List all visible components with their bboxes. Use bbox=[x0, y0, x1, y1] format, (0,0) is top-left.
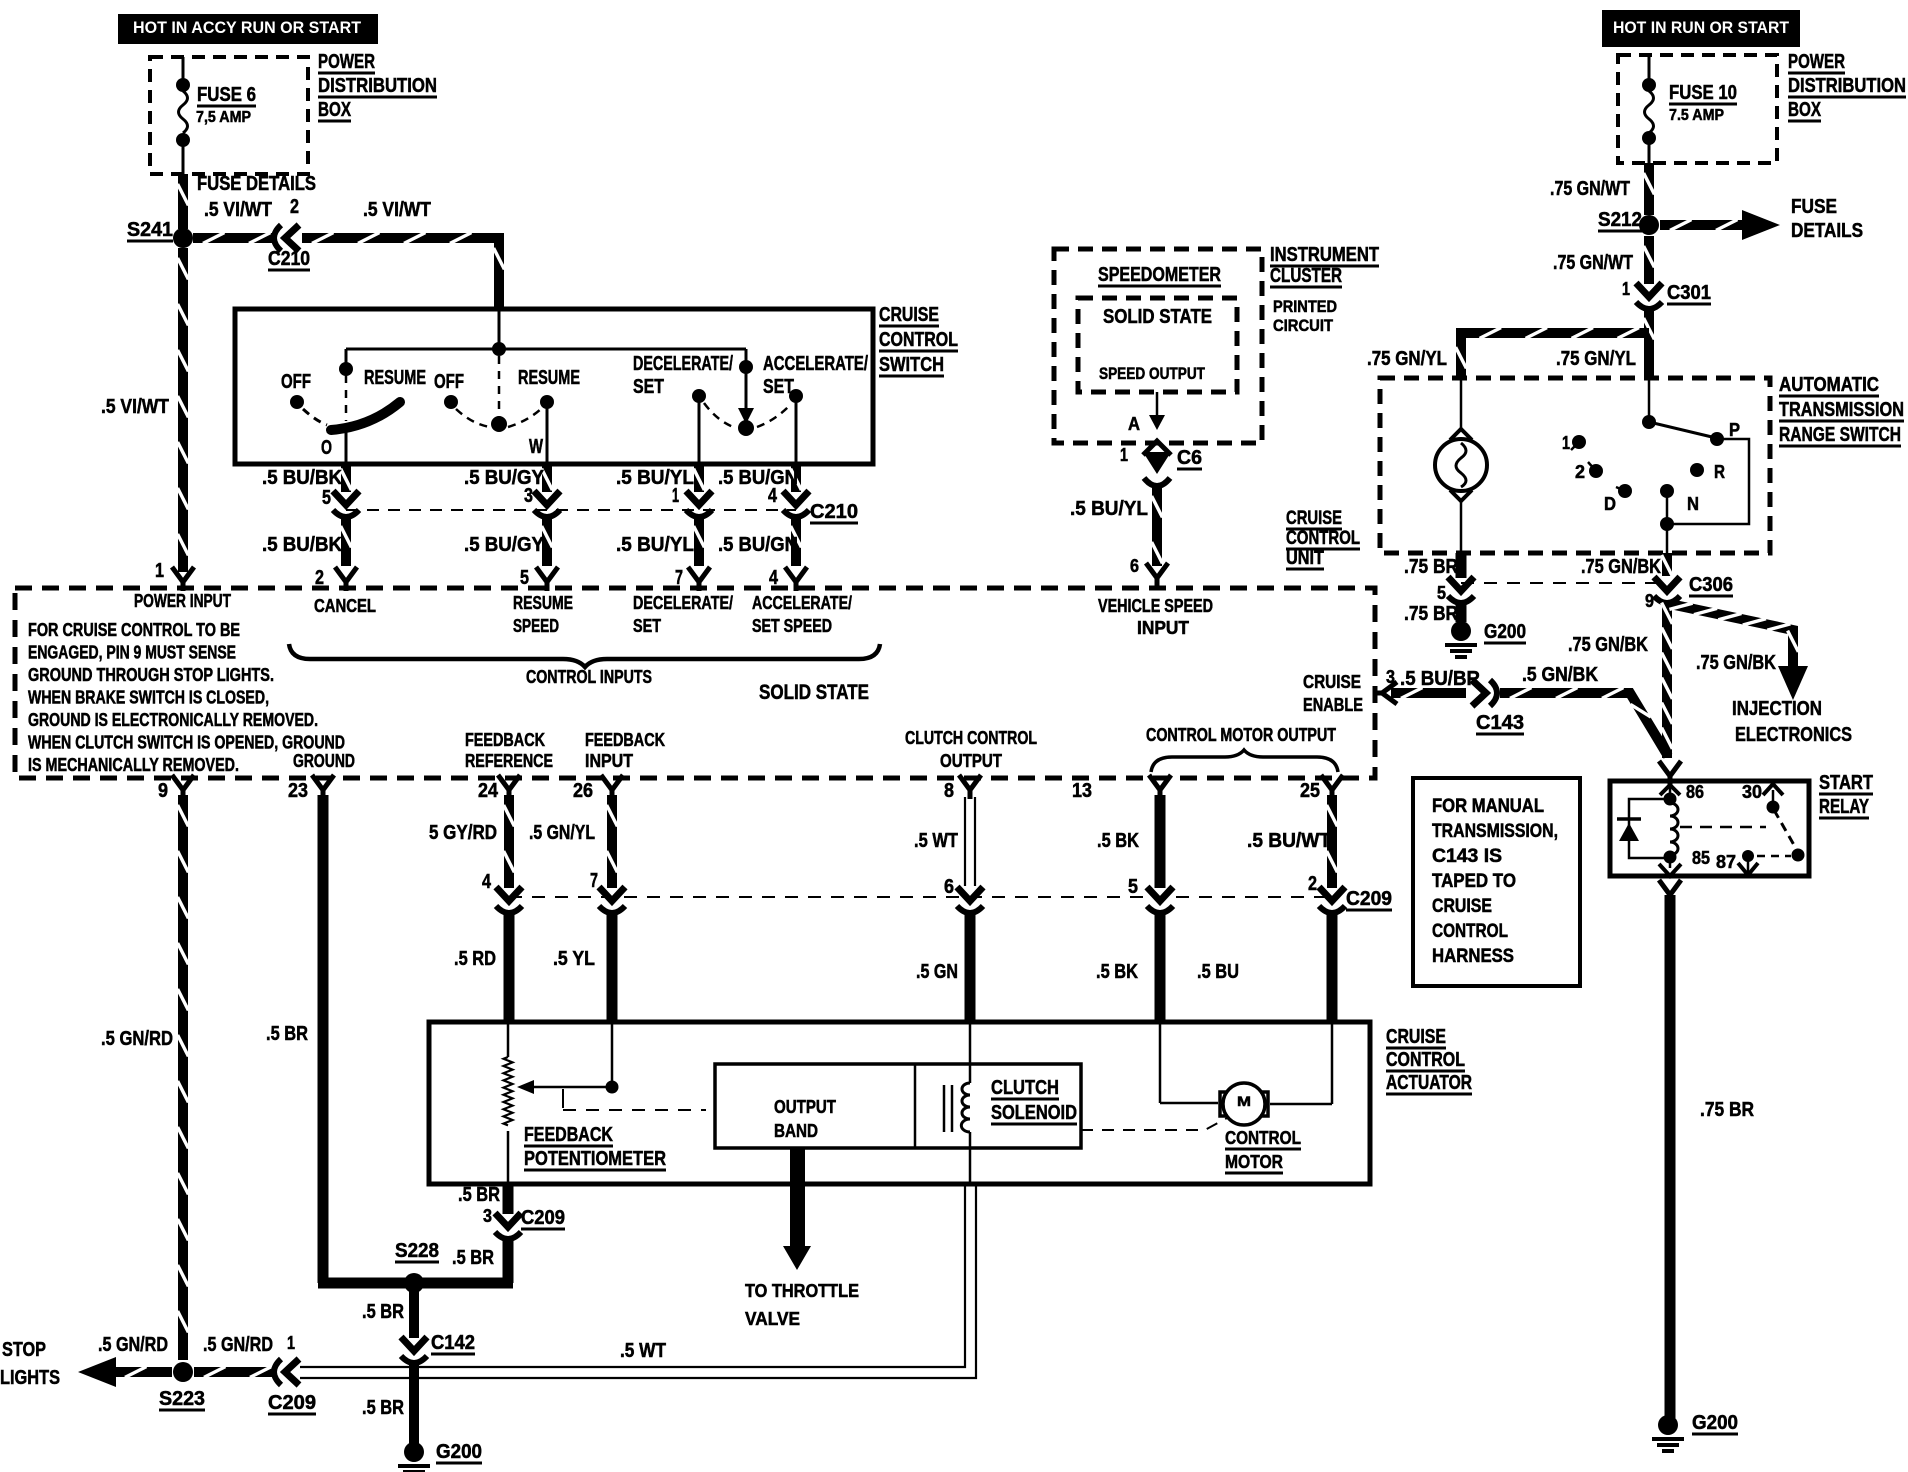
svg-text:.5 BU/GY: .5 BU/GY bbox=[464, 534, 545, 556]
svg-text:.5 GN/RD: .5 GN/RD bbox=[203, 1334, 273, 1356]
svg-text:.5 BU/BR: .5 BU/BR bbox=[1400, 668, 1481, 690]
svg-text:RANGE SWITCH: RANGE SWITCH bbox=[1779, 424, 1901, 446]
svg-text:S228: S228 bbox=[395, 1240, 439, 1262]
svg-text:DECELERATE/: DECELERATE/ bbox=[633, 353, 733, 375]
svg-text:4: 4 bbox=[768, 485, 778, 507]
svg-text:OFF: OFF bbox=[281, 371, 311, 393]
svg-text:2: 2 bbox=[1308, 873, 1317, 895]
svg-text:S241: S241 bbox=[127, 219, 173, 241]
svg-text:SOLID STATE: SOLID STATE bbox=[1103, 306, 1212, 328]
svg-text:WHEN CLUTCH SWITCH IS OPENED,: WHEN CLUTCH SWITCH IS OPENED, GROUND bbox=[28, 733, 345, 753]
svg-text:CONTROL: CONTROL bbox=[1286, 528, 1360, 549]
svg-text:.5 BR: .5 BR bbox=[452, 1247, 494, 1269]
svg-text:BAND: BAND bbox=[774, 1121, 818, 1141]
svg-text:C209: C209 bbox=[521, 1207, 565, 1229]
svg-text:G200: G200 bbox=[1692, 1412, 1738, 1434]
svg-text:.75 BR: .75 BR bbox=[1700, 1099, 1754, 1121]
svg-text:CONTROL: CONTROL bbox=[1225, 1128, 1301, 1148]
svg-text:POWER: POWER bbox=[318, 51, 375, 73]
svg-text:AUTOMATIC: AUTOMATIC bbox=[1779, 374, 1879, 396]
svg-text:REFERENCE: REFERENCE bbox=[465, 751, 553, 771]
svg-text:FOR CRUISE CONTROL TO BE: FOR CRUISE CONTROL TO BE bbox=[28, 620, 240, 640]
svg-text:.5 VI/WT: .5 VI/WT bbox=[363, 199, 431, 221]
svg-text:.75 GN/BK: .75 GN/BK bbox=[1568, 634, 1648, 656]
svg-text:SOLENOID: SOLENOID bbox=[991, 1102, 1077, 1124]
svg-text:.5 BU/GN: .5 BU/GN bbox=[718, 534, 798, 556]
svg-text:C6: C6 bbox=[1177, 447, 1202, 469]
svg-text:D: D bbox=[1604, 494, 1616, 514]
svg-text:SET: SET bbox=[633, 616, 661, 636]
svg-text:1: 1 bbox=[1562, 433, 1570, 453]
svg-text:5: 5 bbox=[1128, 876, 1138, 898]
svg-text:1: 1 bbox=[155, 560, 164, 582]
svg-text:SET: SET bbox=[633, 376, 664, 398]
svg-text:R: R bbox=[1714, 462, 1725, 482]
svg-text:CLUTCH CONTROL: CLUTCH CONTROL bbox=[905, 728, 1037, 748]
svg-text:SPEED OUTPUT: SPEED OUTPUT bbox=[1099, 364, 1205, 383]
svg-text:GROUND: GROUND bbox=[293, 751, 355, 771]
svg-text:FUSE: FUSE bbox=[1791, 196, 1837, 218]
svg-text:STOP: STOP bbox=[2, 1339, 46, 1361]
svg-text:SPEEDOMETER: SPEEDOMETER bbox=[1098, 264, 1221, 286]
svg-text:CONTROL: CONTROL bbox=[1432, 921, 1508, 942]
svg-text:1: 1 bbox=[672, 485, 679, 507]
svg-text:13: 13 bbox=[1072, 780, 1092, 802]
svg-text:C142: C142 bbox=[431, 1332, 475, 1354]
svg-text:CRUISE: CRUISE bbox=[1286, 508, 1342, 529]
svg-text:.5 VI/WT: .5 VI/WT bbox=[204, 199, 272, 221]
svg-text:VEHICLE SPEED: VEHICLE SPEED bbox=[1098, 596, 1213, 616]
svg-text:.5 GN/RD: .5 GN/RD bbox=[98, 1334, 168, 1356]
svg-text:5: 5 bbox=[520, 567, 529, 589]
svg-text:PRINTED: PRINTED bbox=[1273, 297, 1337, 316]
svg-text:VALVE: VALVE bbox=[745, 1309, 800, 1329]
svg-text:.5 WT: .5 WT bbox=[914, 830, 958, 852]
svg-text:.5 BU/YL: .5 BU/YL bbox=[616, 467, 694, 489]
svg-text:POTENTIOMETER: POTENTIOMETER bbox=[524, 1148, 666, 1170]
svg-text:FEEDBACK: FEEDBACK bbox=[465, 730, 545, 750]
svg-text:INSTRUMENT: INSTRUMENT bbox=[1270, 244, 1379, 266]
svg-text:SWITCH: SWITCH bbox=[879, 354, 944, 376]
svg-text:.75 GN/WT: .75 GN/WT bbox=[1550, 178, 1630, 200]
svg-text:.5 BU/GN: .5 BU/GN bbox=[718, 467, 798, 489]
svg-text:P: P bbox=[1729, 420, 1740, 440]
svg-text:GROUND IS ELECTRONICALLY REMOV: GROUND IS ELECTRONICALLY REMOVED. bbox=[28, 710, 318, 730]
svg-text:5: 5 bbox=[322, 487, 331, 509]
svg-text:5: 5 bbox=[1437, 583, 1446, 603]
svg-text:CONTROL INPUTS: CONTROL INPUTS bbox=[526, 667, 652, 687]
svg-text:.5 BU/BK: .5 BU/BK bbox=[262, 467, 343, 489]
svg-text:FUSE 10: FUSE 10 bbox=[1669, 82, 1737, 104]
svg-text:SET SPEED: SET SPEED bbox=[752, 616, 832, 636]
svg-text:OUTPUT: OUTPUT bbox=[774, 1097, 836, 1117]
svg-text:1: 1 bbox=[1622, 279, 1630, 299]
svg-text:4: 4 bbox=[482, 871, 492, 893]
svg-text:A: A bbox=[1128, 414, 1140, 434]
svg-text:MOTOR: MOTOR bbox=[1225, 1152, 1283, 1172]
svg-text:.5 GN/BK: .5 GN/BK bbox=[1522, 664, 1598, 686]
svg-text:BOX: BOX bbox=[1788, 99, 1821, 121]
svg-text:24: 24 bbox=[478, 780, 499, 802]
svg-text:SPEED: SPEED bbox=[513, 616, 559, 636]
svg-text:TO THROTTLE: TO THROTTLE bbox=[745, 1281, 859, 1301]
svg-text:.75 GN/YL: .75 GN/YL bbox=[1556, 348, 1636, 370]
svg-text:DISTRIBUTION: DISTRIBUTION bbox=[1788, 75, 1906, 97]
svg-text:CRUISE: CRUISE bbox=[1432, 896, 1492, 917]
svg-text:6: 6 bbox=[1130, 556, 1139, 576]
svg-text:C210: C210 bbox=[810, 501, 858, 523]
svg-text:C209: C209 bbox=[268, 1392, 316, 1414]
svg-text:CONTROL: CONTROL bbox=[1386, 1049, 1465, 1071]
svg-text:UNIT: UNIT bbox=[1286, 548, 1324, 569]
svg-text:CANCEL: CANCEL bbox=[314, 596, 376, 616]
svg-text:4: 4 bbox=[769, 567, 779, 589]
svg-text:SET: SET bbox=[763, 376, 794, 398]
svg-text:7: 7 bbox=[590, 870, 598, 892]
svg-text:G200: G200 bbox=[1484, 621, 1526, 643]
svg-text:OUTPUT: OUTPUT bbox=[940, 751, 1002, 771]
svg-text:FOR MANUAL: FOR MANUAL bbox=[1432, 796, 1544, 817]
svg-text:.5 BU/BK: .5 BU/BK bbox=[262, 534, 343, 556]
svg-text:ACTUATOR: ACTUATOR bbox=[1386, 1072, 1472, 1094]
svg-text:GROUND THROUGH STOP LIGHTS.: GROUND THROUGH STOP LIGHTS. bbox=[28, 665, 274, 685]
svg-text:CRUISE: CRUISE bbox=[1386, 1026, 1446, 1048]
svg-text:.5 BR: .5 BR bbox=[362, 1301, 404, 1323]
svg-text:SOLID STATE: SOLID STATE bbox=[759, 681, 869, 704]
svg-text:HOT IN ACCY RUN OR START: HOT IN ACCY RUN OR START bbox=[133, 18, 362, 37]
svg-text:C306: C306 bbox=[1689, 574, 1733, 596]
svg-text:C209: C209 bbox=[1346, 888, 1392, 910]
svg-text:OFF: OFF bbox=[434, 371, 464, 393]
svg-text:POWER: POWER bbox=[1788, 51, 1845, 73]
svg-text:.5 GN: .5 GN bbox=[916, 961, 958, 983]
svg-text:FEEDBACK: FEEDBACK bbox=[585, 730, 665, 750]
svg-text:3: 3 bbox=[483, 1206, 492, 1226]
svg-text:FEEDBACK: FEEDBACK bbox=[524, 1124, 613, 1146]
svg-text:FUSE 6: FUSE 6 bbox=[197, 84, 256, 106]
svg-text:INPUT: INPUT bbox=[1137, 618, 1189, 638]
svg-text:25: 25 bbox=[1300, 780, 1320, 802]
svg-text:5 GY/RD: 5 GY/RD bbox=[429, 822, 497, 844]
svg-text:CLUSTER: CLUSTER bbox=[1270, 265, 1342, 287]
svg-text:30: 30 bbox=[1742, 782, 1762, 802]
svg-text:S223: S223 bbox=[159, 1388, 205, 1410]
svg-text:7,5 AMP: 7,5 AMP bbox=[196, 109, 251, 126]
svg-text:ACCELERATE/: ACCELERATE/ bbox=[763, 353, 868, 375]
svg-text:.75 GN/WT: .75 GN/WT bbox=[1553, 252, 1633, 274]
svg-text:.5 GN/YL: .5 GN/YL bbox=[529, 822, 595, 844]
svg-text:ENABLE: ENABLE bbox=[1303, 695, 1363, 715]
svg-text:DECELERATE/: DECELERATE/ bbox=[633, 593, 733, 613]
svg-text:DETAILS: DETAILS bbox=[1791, 220, 1863, 242]
svg-text:CRUISE: CRUISE bbox=[879, 304, 939, 326]
svg-text:1: 1 bbox=[1120, 445, 1128, 465]
svg-text:RESUME: RESUME bbox=[513, 593, 573, 613]
svg-text:CLUTCH: CLUTCH bbox=[991, 1077, 1059, 1099]
svg-text:87: 87 bbox=[1716, 852, 1736, 872]
svg-text:FUSE DETAILS: FUSE DETAILS bbox=[197, 173, 316, 195]
svg-text:START: START bbox=[1819, 772, 1873, 794]
svg-text:RESUME: RESUME bbox=[364, 367, 426, 389]
svg-text:TAPED TO: TAPED TO bbox=[1432, 871, 1516, 892]
svg-text:C143: C143 bbox=[1476, 712, 1524, 734]
svg-text:.5 RD: .5 RD bbox=[454, 948, 496, 970]
svg-text:1: 1 bbox=[287, 1333, 295, 1353]
svg-text:.5 GN/RD: .5 GN/RD bbox=[101, 1028, 173, 1050]
svg-text:3: 3 bbox=[524, 485, 533, 507]
svg-text:.75 GN/YL: .75 GN/YL bbox=[1367, 348, 1447, 370]
svg-text:3: 3 bbox=[1386, 667, 1395, 687]
svg-text:POWER INPUT: POWER INPUT bbox=[134, 591, 231, 611]
svg-text:23: 23 bbox=[288, 780, 308, 802]
svg-text:CRUISE: CRUISE bbox=[1303, 672, 1361, 692]
svg-text:ACCELERATE/: ACCELERATE/ bbox=[752, 593, 852, 613]
svg-text:S212: S212 bbox=[1598, 209, 1642, 231]
svg-text:.5 BU/YL: .5 BU/YL bbox=[616, 534, 694, 556]
svg-text:M: M bbox=[1237, 1093, 1251, 1109]
svg-text:RESUME: RESUME bbox=[518, 367, 580, 389]
svg-text:WHEN BRAKE SWITCH IS CLOSED,: WHEN BRAKE SWITCH IS CLOSED, bbox=[28, 688, 269, 708]
svg-text:.75 BR: .75 BR bbox=[1404, 556, 1458, 578]
svg-text:ENGAGED, PIN 9 MUST SENSE: ENGAGED, PIN 9 MUST SENSE bbox=[28, 643, 236, 663]
svg-text:.5 BR: .5 BR bbox=[362, 1397, 404, 1419]
svg-text:.5 YL: .5 YL bbox=[553, 948, 595, 970]
svg-text:C301: C301 bbox=[1667, 282, 1711, 304]
svg-text:C210: C210 bbox=[268, 248, 310, 270]
svg-text:.5 VI/WT: .5 VI/WT bbox=[101, 396, 169, 418]
svg-text:.75 GN/BK: .75 GN/BK bbox=[1696, 652, 1776, 674]
svg-text:85: 85 bbox=[1692, 848, 1710, 868]
svg-text:.5 BK: .5 BK bbox=[1096, 961, 1138, 983]
svg-text:7: 7 bbox=[675, 567, 683, 589]
svg-text:.5 BK: .5 BK bbox=[1097, 830, 1139, 852]
svg-text:26: 26 bbox=[573, 780, 593, 802]
svg-text:G200: G200 bbox=[436, 1441, 482, 1463]
svg-text:.75 GN/BK: .75 GN/BK bbox=[1581, 556, 1661, 578]
svg-text:9: 9 bbox=[1645, 591, 1654, 611]
svg-text:2: 2 bbox=[315, 567, 324, 589]
svg-text:N: N bbox=[1687, 494, 1699, 514]
svg-text:TRANSMISSION,: TRANSMISSION, bbox=[1432, 821, 1558, 842]
svg-text:8: 8 bbox=[944, 780, 954, 802]
svg-text:86: 86 bbox=[1686, 782, 1704, 802]
svg-text:CONTROL MOTOR OUTPUT: CONTROL MOTOR OUTPUT bbox=[1146, 725, 1336, 745]
svg-text:O: O bbox=[321, 437, 332, 459]
svg-text:INPUT: INPUT bbox=[585, 751, 633, 771]
svg-text:TRANSMISSION: TRANSMISSION bbox=[1779, 399, 1904, 421]
svg-text:INJECTION: INJECTION bbox=[1732, 698, 1822, 720]
svg-text:IS MECHANICALLY REMOVED.: IS MECHANICALLY REMOVED. bbox=[28, 755, 239, 775]
svg-text:.5 WT: .5 WT bbox=[620, 1340, 666, 1362]
svg-text:9: 9 bbox=[158, 780, 168, 802]
svg-text:ELECTRONICS: ELECTRONICS bbox=[1735, 724, 1852, 746]
svg-text:7.5 AMP: 7.5 AMP bbox=[1669, 107, 1724, 124]
svg-text:LIGHTS: LIGHTS bbox=[0, 1367, 60, 1389]
svg-text:RELAY: RELAY bbox=[1819, 796, 1869, 818]
svg-text:6: 6 bbox=[944, 876, 954, 898]
svg-text:BOX: BOX bbox=[318, 99, 351, 121]
svg-text:2: 2 bbox=[1575, 462, 1585, 482]
svg-text:.5 BU/YL: .5 BU/YL bbox=[1070, 498, 1148, 520]
svg-text:.5 BR: .5 BR bbox=[458, 1184, 500, 1206]
svg-text:CONTROL: CONTROL bbox=[879, 329, 958, 351]
svg-text:.5 BU: .5 BU bbox=[1197, 961, 1239, 983]
svg-text:CIRCUIT: CIRCUIT bbox=[1273, 316, 1334, 335]
svg-text:W: W bbox=[529, 436, 543, 458]
svg-text:C143 IS: C143 IS bbox=[1432, 846, 1502, 867]
svg-text:HARNESS: HARNESS bbox=[1432, 946, 1514, 967]
svg-text:.75 BR: .75 BR bbox=[1404, 603, 1458, 625]
svg-text:DISTRIBUTION: DISTRIBUTION bbox=[318, 75, 437, 97]
svg-text:.5 BU/WT: .5 BU/WT bbox=[1247, 830, 1331, 852]
svg-text:HOT IN RUN OR START: HOT IN RUN OR START bbox=[1613, 18, 1790, 37]
svg-text:2: 2 bbox=[290, 196, 299, 218]
svg-text:.5 BR: .5 BR bbox=[266, 1023, 308, 1045]
